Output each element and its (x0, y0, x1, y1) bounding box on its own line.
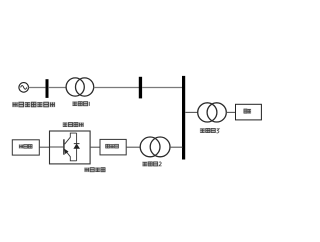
label 逆变电路 above inverter (63, 122, 84, 127)
wire transformer T1 to busbar B2 (94, 87, 139, 89)
main busbar B3 (182, 76, 185, 160)
inverter box (逆变电路) (50, 131, 91, 164)
busbar B1 (46, 79, 49, 98)
wire busbar B2 to main busbar (142, 87, 182, 89)
wire transformer T3 to load box (226, 111, 235, 113)
wire busbar B1 to transformer T1 (48, 87, 66, 89)
IGBT Q1 gate lead (50, 146, 63, 148)
wire generator to busbar B1 (29, 87, 46, 89)
IGBT Q1 emitter arrow (64, 149, 68, 154)
label 滤波器 (105, 144, 119, 148)
label 直流源 (19, 144, 33, 148)
label 变压器1 (72, 101, 89, 106)
label 负载 (243, 109, 251, 114)
load box (负载) (236, 104, 262, 120)
label 等值微源 below inverter (84, 167, 105, 172)
label 变压器3 (200, 128, 219, 133)
generator G (equivalent synchronous generator) (19, 83, 29, 93)
wire filter to transformer T2 (126, 146, 140, 148)
transformer T2 (变压器2) (140, 137, 170, 157)
wire inverter to filter (90, 146, 100, 148)
antiparallel diode D1 (73, 133, 80, 161)
DC source box (直流源) (12, 140, 39, 155)
IGBT Q1 bar (63, 139, 65, 154)
IGBT Q1 collector branch (65, 133, 77, 144)
busbar B2 (139, 77, 142, 99)
IGBT Q1 emitter branch (65, 150, 77, 161)
label 等值同步发电机 (12, 102, 55, 107)
wire transformer T2 to main busbar (170, 146, 182, 148)
wire DC source to inverter (39, 146, 49, 148)
label 变压器2 (142, 162, 161, 167)
transformer T1 (变压器1) (66, 78, 94, 96)
wire main busbar to transformer T3 (185, 111, 198, 113)
transformer T3 (变压器3) (198, 103, 227, 122)
filter box (滤波器) (100, 139, 126, 155)
